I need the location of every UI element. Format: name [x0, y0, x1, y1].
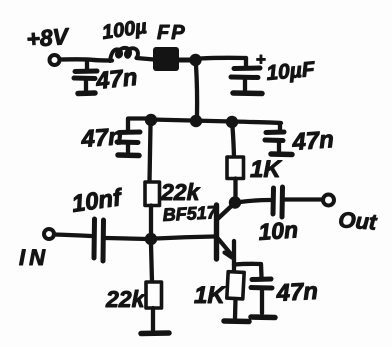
- wire emitter to emitter node: [232, 241, 236, 273]
- svg-text:BF517: BF517: [162, 202, 218, 225]
- capacitor C 47n lower: [252, 277, 271, 283]
- capacitor C 47n top-right: [278, 123, 282, 131]
- svg-text:Out: Out: [338, 207, 379, 235]
- capacitor C 10n output: [271, 188, 277, 214]
- wire IN to C10nf: [54, 235, 91, 237]
- wire R22k lower to ground: [151, 308, 155, 330]
- resistor R 22k upper: [145, 182, 160, 206]
- capacitor C 47n top-left: [85, 60, 89, 70]
- transistor Q1 emitter lead: [218, 239, 233, 257]
- terminal +8V: [50, 55, 60, 65]
- wire emitter node to 47n lower: [234, 264, 262, 277]
- svg-text:1K: 1K: [250, 156, 282, 183]
- capacitor C 10nf input: [92, 219, 98, 258]
- wire rail-right down to R1k upper: [233, 127, 235, 157]
- node collector: [229, 196, 241, 208]
- wire R1k to collector node: [233, 179, 237, 199]
- node rail-left: [145, 114, 157, 126]
- transistor Q1 collector lead: [218, 205, 234, 220]
- ground (under 10uF): [233, 90, 262, 96]
- node (junction after FP): [189, 54, 201, 66]
- ground (under 22k lower): [141, 330, 169, 336]
- svg-text:+8V: +8V: [26, 23, 71, 52]
- svg-text:IN: IN: [19, 245, 49, 270]
- ground (under 1K lower): [224, 318, 249, 324]
- ground (under 47n top-left): [78, 90, 95, 96]
- wire R1k lower to ground: [233, 299, 238, 318]
- wire node down to rail: [196, 65, 197, 116]
- capacitor C 10uF: [244, 58, 248, 67]
- inductor L1 100n: [110, 48, 138, 61]
- wire out cap to Out terminal: [285, 197, 322, 201]
- svg-text:FP: FP: [157, 22, 187, 44]
- wire R22k upper to base node: [149, 206, 153, 235]
- transistor Q1 emitter arrow: [225, 253, 233, 258]
- resistor R 1K upper: [227, 157, 244, 179]
- svg-text:47n: 47n: [275, 278, 319, 307]
- ground (under 47n top-right): [271, 151, 292, 157]
- svg-text:47n: 47n: [291, 126, 335, 156]
- terminal Out: [323, 195, 334, 206]
- node rail-mid: [190, 115, 202, 127]
- node base: [145, 233, 157, 245]
- terminal IN: [44, 229, 54, 239]
- wire supply rail: [151, 120, 281, 124]
- resistor R 1K lower: [227, 272, 244, 299]
- svg-text:22k: 22k: [160, 179, 201, 205]
- wire +8V to inductor: [60, 59, 112, 60]
- ferrite bead FP: [153, 47, 179, 71]
- svg-text:10µF: 10µF: [265, 58, 316, 85]
- node rail-right: [226, 116, 238, 128]
- capacitor C 47n mid-left: [128, 119, 146, 132]
- ground (under 47n mid-left): [118, 152, 139, 158]
- wire base node to transistor base: [156, 237, 214, 239]
- wire rail-left down to R22k upper: [150, 125, 151, 182]
- wire C10nf to base node: [106, 238, 147, 239]
- svg-text:100µ: 100µ: [101, 16, 149, 44]
- transistor Q1 BF517 base bar: [214, 205, 219, 259]
- wire node to 10uF: [200, 56, 246, 61]
- wire base node down to R22k lower: [151, 244, 152, 282]
- svg-text:+: +: [256, 50, 266, 69]
- svg-text:10n: 10n: [258, 216, 299, 245]
- wire collector node to out cap: [240, 200, 270, 202]
- ground (under 47n lower): [251, 314, 275, 320]
- svg-text:1K: 1K: [194, 282, 226, 309]
- svg-text:47n: 47n: [94, 64, 139, 95]
- svg-text:22k: 22k: [105, 286, 146, 312]
- wire FP to node: [179, 58, 191, 63]
- resistor R 22k lower: [146, 282, 162, 308]
- wire inductor to FP bead: [137, 58, 155, 60]
- svg-text:47n: 47n: [80, 123, 124, 153]
- svg-text:10nf: 10nf: [70, 184, 125, 218]
